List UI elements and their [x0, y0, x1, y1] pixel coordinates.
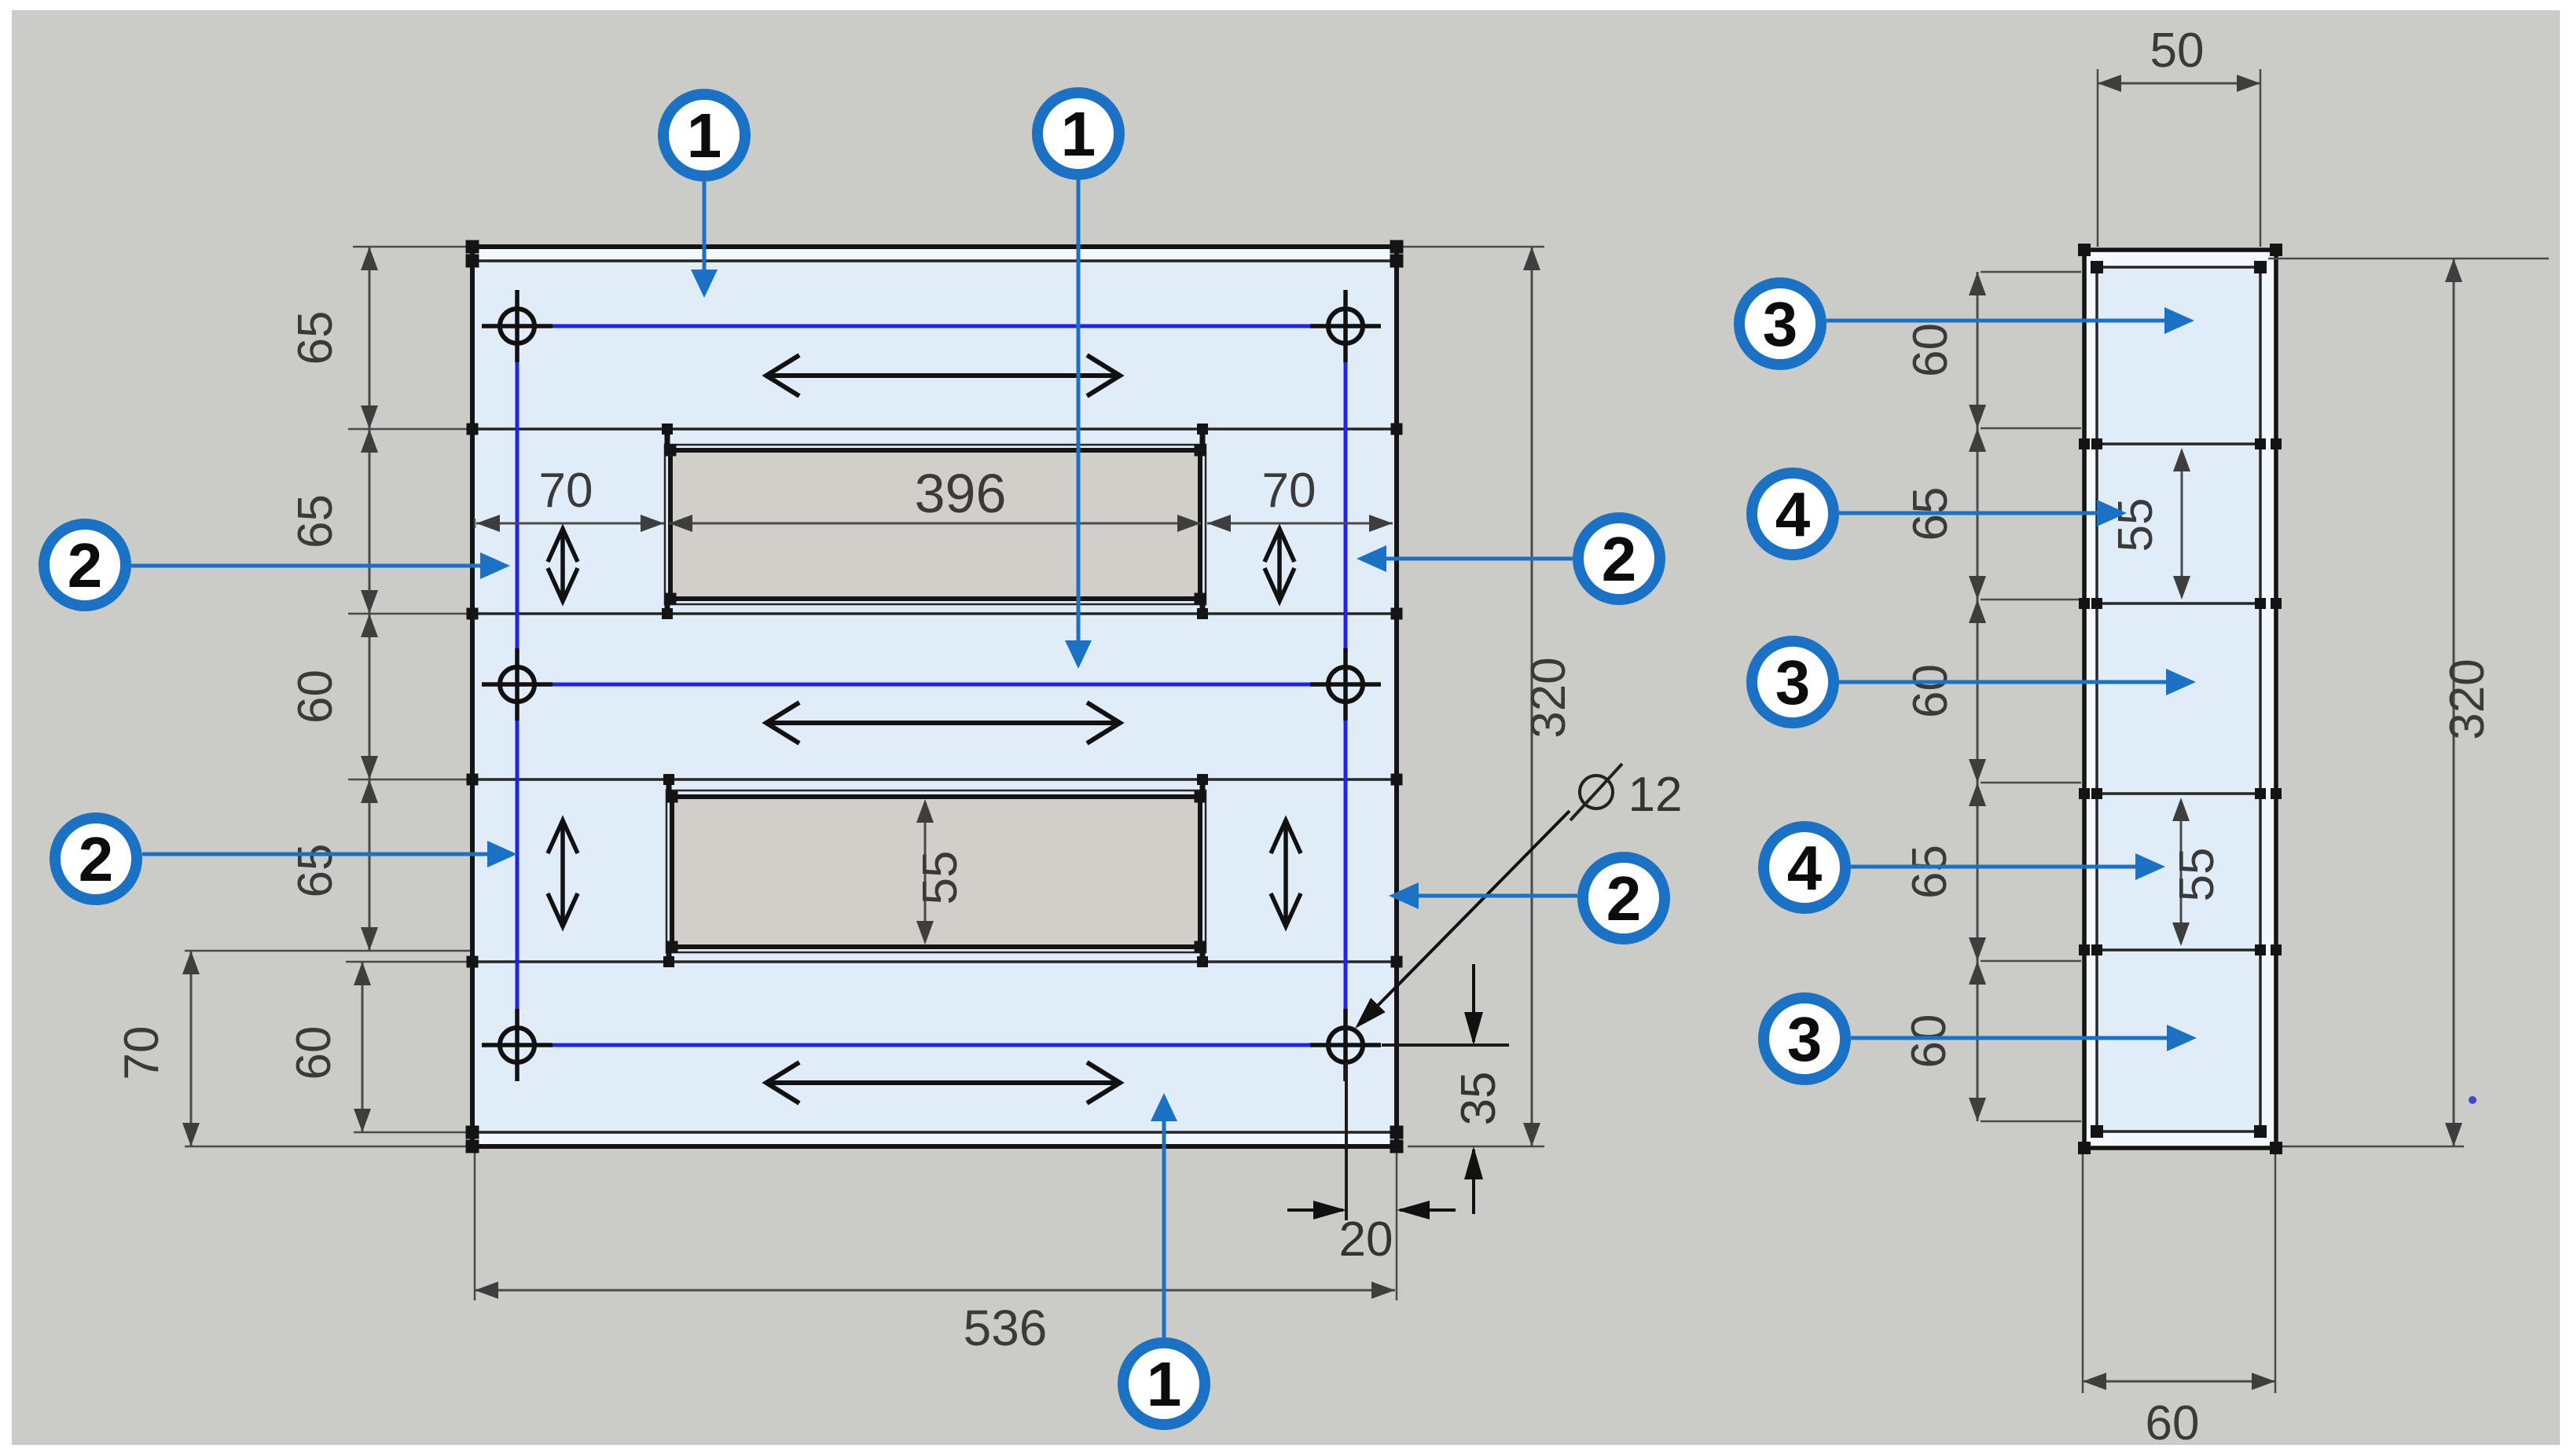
svg-text:3: 3	[1775, 647, 1811, 717]
plate outer outline	[472, 247, 1397, 1146]
leader balloon 3a	[1827, 307, 2194, 334]
diameter symbol	[1570, 764, 1622, 820]
plate front view: blue face fill	[475, 262, 1394, 1131]
plate inner bottom edge line	[472, 1131, 1397, 1134]
extension stubs for slot dims	[474, 519, 476, 528]
leader balloon 4a	[1839, 500, 2127, 526]
balloon 2 right lower	[1583, 857, 1665, 939]
plate corner extension down	[1396, 1150, 1398, 1300]
cutout slot 1	[670, 450, 1200, 599]
svg-text:1: 1	[1061, 99, 1096, 169]
double arrow band 3	[766, 702, 1120, 743]
side dimension 55 upper	[2109, 448, 2190, 600]
svg-text:3: 3	[1787, 1004, 1823, 1074]
balloon 1 top-left	[663, 94, 745, 176]
dimension 65 (band 2)	[288, 429, 378, 614]
side band line 3	[2097, 792, 2260, 795]
svg-text:55: 55	[2109, 498, 2163, 552]
balloon 1 top-right	[1037, 93, 1119, 174]
svg-text:2: 2	[68, 530, 103, 600]
svg-text:60: 60	[2146, 1396, 2200, 1450]
side dimension 65 b	[1903, 783, 1986, 961]
leader balloon 1a	[691, 182, 718, 298]
dimension 70 right	[1207, 464, 1393, 532]
side dimension 55 lower	[2170, 798, 2224, 946]
dimension 65 (top band)	[288, 247, 378, 429]
hole middle-right	[1310, 648, 1381, 721]
vertical double arrow band2 right	[1265, 529, 1294, 601]
blue centerline left column	[516, 326, 520, 1045]
double arrow band 1	[766, 355, 1120, 396]
balloon 2 right upper	[1578, 518, 1660, 600]
vertex tick marks	[466, 240, 2283, 1155]
diameter 12 leader	[1355, 811, 1570, 1029]
svg-text:60: 60	[1904, 323, 1958, 377]
side dimension 60 a	[1904, 272, 1986, 428]
side view inner outline	[2097, 267, 2260, 1131]
dimension 70 (bottom)	[115, 951, 200, 1146]
dimension 60 (band 3)	[288, 614, 378, 779]
side dimension 60 c	[1902, 961, 1986, 1121]
hole top-right	[1310, 290, 1381, 362]
side view outer outline	[2084, 250, 2276, 1148]
hole bottom-right	[1310, 1009, 1381, 1081]
side band line 1	[2097, 442, 2260, 446]
svg-text:1: 1	[687, 101, 722, 171]
band boundary line 4	[472, 960, 1397, 963]
svg-text:60: 60	[1902, 1014, 1956, 1069]
leader balloon 2 right upper	[1357, 545, 1573, 572]
svg-text:65: 65	[1903, 845, 1957, 899]
cutout slot 1 thin outline	[665, 445, 1206, 604]
svg-text:60: 60	[287, 1026, 341, 1080]
svg-text:320: 320	[2440, 658, 2495, 739]
dimension 536	[475, 1282, 1395, 1299]
leader balloon 1c	[1151, 1093, 1177, 1337]
svg-text:70: 70	[539, 464, 593, 518]
cutout slot 2	[672, 797, 1200, 947]
svg-text:12: 12	[1628, 768, 1683, 822]
band boundary line 1	[472, 427, 1397, 431]
svg-text:2: 2	[1606, 864, 1642, 933]
hole extension line right	[1382, 1043, 1509, 1047]
leader balloon 1b	[1065, 180, 1092, 669]
side dimension 320	[2445, 259, 2462, 1146]
svg-text:4: 4	[1775, 479, 1811, 549]
stray blue dot	[2469, 1096, 2476, 1104]
balloon 3 middle	[1752, 641, 1834, 723]
svg-text:4: 4	[1787, 833, 1823, 903]
side chain extension lines	[1981, 271, 2081, 273]
plate inner top edge line	[472, 259, 1397, 262]
536 extension left	[474, 1150, 476, 1300]
svg-text:396: 396	[915, 463, 1007, 524]
svg-text:60: 60	[1904, 664, 1958, 718]
vertical double arrow band4 right	[1271, 820, 1301, 926]
side view face strip	[2087, 252, 2274, 1146]
balloon 4 upper	[1752, 473, 1834, 555]
side band line 4	[2097, 948, 2260, 952]
hole top-left	[482, 290, 553, 362]
band boundary line 3	[472, 778, 1397, 781]
leader balloon 3c	[1851, 1025, 2197, 1051]
blue centerline bottom row	[517, 1043, 1346, 1047]
double arrow band 5	[766, 1062, 1120, 1103]
hole bottom-left	[482, 1009, 553, 1081]
blue centerline top row	[517, 325, 1346, 328]
svg-text:2: 2	[1602, 524, 1637, 594]
leader balloon 3b	[1839, 669, 2196, 695]
dimension 60 bottom	[2083, 1373, 2275, 1390]
svg-text:70: 70	[115, 1026, 169, 1080]
dimension 50	[2098, 75, 2260, 92]
hole extension line down	[1345, 1062, 1348, 1220]
cutout corner stubs	[665, 429, 670, 450]
band boundary line 2	[472, 612, 1397, 615]
50 extension lines	[2097, 69, 2099, 247]
dimension 20	[1287, 1201, 1456, 1267]
balloon 2 left lower	[55, 818, 137, 900]
svg-text:320: 320	[1522, 657, 1576, 738]
svg-text:65: 65	[288, 844, 343, 898]
svg-text:65: 65	[288, 311, 343, 365]
balloon 3 upper	[1739, 283, 1821, 365]
leader balloon 4b	[1851, 853, 2165, 880]
balloon 3 bottom	[1764, 998, 1845, 1080]
blue centerline middle row	[517, 683, 1346, 687]
left chain extension lines	[353, 246, 470, 248]
side 320 extension top	[2268, 258, 2549, 260]
dimension 70 left	[476, 464, 664, 532]
dimension 35	[1452, 964, 1506, 1214]
60 extension lines	[2082, 1152, 2084, 1393]
svg-text:65: 65	[288, 494, 343, 548]
svg-text:536: 536	[964, 1300, 1048, 1356]
vertical double arrow band2 left	[548, 529, 578, 601]
vertical double arrow band4 left	[548, 820, 578, 926]
blue centerline right column	[1344, 326, 1348, 1045]
side band line 2	[2097, 602, 2260, 605]
side 320 extension bottom	[2280, 1146, 2464, 1148]
svg-text:55: 55	[913, 851, 967, 905]
dimension 320 front view	[1523, 247, 1540, 1146]
cutout slot 2 thin outline	[666, 790, 1206, 952]
svg-text:1: 1	[1147, 1349, 1182, 1419]
plate front view: bottom edge strip	[475, 1134, 1394, 1144]
leader balloon 2 left upper	[131, 552, 510, 579]
plate front view: top edge strip	[475, 249, 1394, 259]
svg-text:70: 70	[1262, 464, 1316, 518]
svg-text:60: 60	[288, 669, 343, 724]
dimension 396 slot width	[669, 463, 1201, 532]
side dimension 60 b	[1904, 600, 1986, 783]
leader balloon 2 left lower	[142, 841, 517, 867]
320 extension bottom	[1408, 1146, 1544, 1148]
side view blue fill	[2098, 269, 2259, 1130]
dimension 60 (band 5)	[287, 962, 371, 1132]
hole middle-left	[482, 648, 553, 721]
320 extension top	[1401, 246, 1544, 248]
svg-text:2: 2	[79, 824, 114, 894]
svg-text:50: 50	[2150, 24, 2205, 78]
svg-text:20: 20	[1339, 1212, 1393, 1267]
side dimension 65 a	[1904, 428, 1986, 600]
balloon 1 bottom	[1123, 1343, 1205, 1425]
svg-text:3: 3	[1763, 289, 1798, 359]
svg-text:35: 35	[1452, 1072, 1506, 1126]
balloon 2 left upper	[44, 524, 126, 606]
svg-text:55: 55	[2170, 848, 2224, 902]
balloon 4 lower	[1764, 827, 1845, 908]
dimension 65 (band 4)	[288, 779, 378, 951]
leader balloon 2 right lower	[1389, 882, 1577, 909]
dimension 55 slot height	[913, 799, 967, 944]
